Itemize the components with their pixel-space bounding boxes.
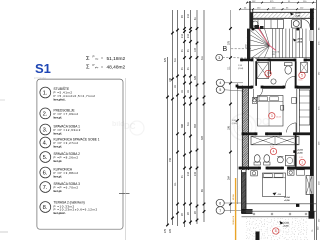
svg-text:ker.ploč.: ker.ploč.	[54, 97, 66, 101]
interior wall row2	[237, 86, 252, 89]
dimension ticks and labels	[183, 27, 186, 30]
legend item 5	[40, 152, 51, 163]
svg-text:+5,56: +5,56	[284, 200, 290, 202]
door arc bedroom1 entry	[253, 89, 262, 98]
legend item 4	[40, 137, 51, 148]
dimension line extended	[230, 10, 232, 213]
small column bottom	[256, 232, 260, 240]
nightstand bedroom3 left	[251, 171, 257, 176]
terrace corner wall horizontal	[242, 209, 253, 211]
svg-text:3: 3	[271, 114, 273, 118]
svg-text:+5,56: +5,56	[283, 225, 289, 227]
interior vertical wall bath2 right	[295, 135, 297, 166]
extension line bathroom1	[253, 61, 255, 86]
svg-text:6: 6	[267, 72, 269, 76]
window right bedroom3	[306, 176, 312, 195]
svg-text:212: 212	[181, 33, 184, 38]
legend item 2	[40, 108, 51, 119]
svg-text:375: 375	[228, 40, 231, 45]
svg-text:+5,56: +5,56	[295, 15, 301, 17]
svg-text:746: 746	[169, 157, 172, 162]
svg-text:4.: 4.	[43, 141, 48, 147]
door arc bathroom1	[286, 76, 296, 86]
svg-text:219: 219	[194, 171, 197, 176]
exterior top wall	[250, 11, 314, 13]
svg-text:ker.ploč.: ker.ploč.	[54, 211, 66, 215]
legend box	[37, 79, 123, 229]
faint vertical line right of legend	[125, 78, 127, 240]
top room fixture circle	[292, 20, 302, 29]
svg-text:7.: 7.	[43, 185, 48, 191]
svg-text:Σ: Σ	[86, 65, 90, 71]
svg-text:2.: 2.	[43, 112, 48, 118]
bed bedroom1	[258, 96, 284, 127]
grid bubble 5	[216, 86, 224, 93]
grid bubble 6	[216, 199, 224, 206]
svg-text:5: 5	[219, 88, 221, 92]
svg-text:ker.pl.: ker.pl.	[54, 144, 63, 148]
dimension chain vertical lines	[167, 57, 169, 225]
svg-text:1.: 1.	[43, 91, 48, 97]
legend item 6	[40, 167, 51, 178]
svg-text:212: 212	[187, 33, 190, 38]
interior wall row4	[240, 167, 260, 170]
orange boundary line	[235, 178, 237, 240]
svg-text:264: 264	[228, 175, 231, 180]
svg-text:368: 368	[181, 123, 184, 128]
washing machine bathroom2	[286, 155, 295, 166]
nightstand left	[252, 98, 256, 104]
svg-text:ker.pl.: ker.pl.	[54, 174, 63, 178]
svg-text:3.: 3.	[43, 128, 48, 134]
svg-text:+5,56: +5,56	[297, 152, 303, 154]
room label 5 (red)	[299, 72, 305, 78]
svg-text:+3,04: +3,04	[297, 38, 303, 41]
room label 3 (red)	[269, 113, 275, 119]
legend item 7	[40, 182, 51, 193]
top-right door arc	[301, 19, 303, 29]
svg-text:311: 311	[201, 56, 204, 60]
svg-text:7: 7	[219, 209, 221, 213]
interior vertical wall bedroom1 wardrobe	[296, 89, 298, 133]
svg-text:+5,04: +5,04	[283, 222, 289, 225]
svg-text:+5,04: +5,04	[297, 149, 303, 152]
svg-text:210: 210	[187, 171, 190, 176]
svg-text:+5,04: +5,04	[284, 196, 290, 199]
svg-text:51,18m2: 51,18m2	[107, 56, 126, 62]
svg-text:12,63: 12,63	[276, 116, 282, 118]
toilet bathroom1	[285, 63, 293, 66]
svg-text:4: 4	[219, 81, 221, 85]
grid bubble 4	[216, 79, 224, 86]
page fold dash	[119, 193, 130, 195]
terrace boundary lines	[246, 203, 316, 205]
svg-text:212: 212	[187, 13, 190, 18]
svg-text:5.: 5.	[43, 155, 48, 161]
svg-text:225: 225	[169, 228, 172, 233]
exterior left wall upper	[249, 1, 251, 29]
svg-text:(2,64): (2,64)	[232, 123, 238, 125]
svg-text:(2,64): (2,64)	[238, 68, 244, 70]
interior wall row3	[243, 132, 256, 135]
svg-text:bild: bild	[112, 121, 124, 128]
svg-text:=: =	[101, 65, 103, 69]
room label 6 (red)	[265, 70, 271, 76]
svg-text:C: C	[262, 117, 269, 128]
exterior left wall middle	[241, 86, 243, 171]
svg-text:B: B	[223, 46, 228, 53]
svg-text:311: 311	[174, 58, 177, 62]
svg-text:Σ: Σ	[86, 56, 90, 62]
svg-text:1,98: 1,98	[299, 157, 303, 159]
top dimension lines	[247, 2, 316, 4]
svg-text:196: 196	[228, 125, 231, 130]
dark fixtures left top	[255, 25, 260, 29]
nightstand right	[281, 106, 284, 111]
wardrobe small right of bed	[297, 170, 305, 175]
staircase straight run treads	[272, 29, 274, 58]
stair direction arrow (pink)	[258, 27, 270, 45]
legend item 1	[40, 87, 51, 98]
svg-text:S1: S1	[35, 61, 51, 76]
svg-text:=: =	[101, 57, 103, 61]
svg-text:8: 8	[275, 229, 277, 233]
wardrobe bedroom1	[299, 90, 310, 125]
svg-text:6.: 6.	[43, 171, 48, 177]
svg-text:357: 357	[194, 123, 197, 128]
grid bubble 3	[216, 54, 223, 60]
right border line	[316, 0, 318, 240]
nightstand bedroom3 right	[288, 170, 295, 175]
svg-text:307: 307	[201, 135, 204, 140]
staircase winder fan	[254, 29, 270, 46]
wall dim marks	[247, 36, 250, 39]
svg-text:GRANICA: GRANICA	[232, 215, 235, 225]
room label 8 (red) terrace	[273, 228, 279, 234]
terrace stipple	[246, 218, 308, 240]
svg-text:+3,56: +3,56	[297, 41, 303, 43]
legend item 3	[40, 124, 51, 135]
svg-text:ker.pl.: ker.pl.	[54, 131, 63, 135]
svg-text:MEĐA: MEĐA	[232, 194, 235, 200]
washbasin bathroom2	[277, 157, 283, 163]
grid bubble 7	[216, 207, 224, 214]
shower bathroom1	[257, 63, 269, 79]
bidet bathroom2	[264, 155, 270, 163]
svg-text:6: 6	[219, 202, 221, 206]
svg-text:5: 5	[301, 74, 303, 78]
edge artifact marks	[0, 231, 8, 233]
exterior right wall	[310, 9, 314, 31]
svg-text:ker.pl.: ker.pl.	[54, 115, 63, 119]
svg-text:378: 378	[194, 75, 197, 80]
watermark emblem	[130, 114, 269, 140]
svg-text:8.: 8.	[43, 205, 48, 211]
legend item 8	[40, 202, 51, 213]
door arc bedroom1	[287, 123, 297, 132]
wardrobe with X row3	[251, 136, 299, 145]
terrace right column	[309, 211, 315, 219]
washbasin bathroom1	[271, 79, 276, 84]
bed bedroom3	[263, 173, 286, 197]
svg-text:198: 198	[169, 77, 172, 82]
half wall bathroom1	[269, 61, 271, 74]
room label K (red) right	[299, 159, 305, 165]
exterior left wall lower / terrace corner	[241, 170, 243, 214]
junction marks	[252, 28, 255, 31]
wardrobe top room	[252, 20, 284, 29]
svg-text:275: 275	[164, 228, 167, 233]
svg-text:ker.pl.: ker.pl.	[54, 159, 63, 163]
svg-text:137: 137	[194, 47, 197, 52]
svg-text:3: 3	[218, 56, 220, 60]
interior wall row1 (below stairs)	[241, 59, 253, 62]
svg-text:+5,04: +5,04	[295, 12, 301, 15]
room label 4 (red)	[270, 148, 276, 154]
svg-text:4: 4	[273, 150, 275, 154]
svg-text:675: 675	[164, 57, 167, 62]
interior vertical wall bathroom1 right	[295, 61, 297, 86]
interior vertical wall bathroom1 left	[255, 61, 257, 86]
toilet bathroom2	[254, 162, 260, 165]
svg-text:311: 311	[187, 122, 190, 126]
svg-text:ker.pl.: ker.pl.	[54, 189, 63, 193]
svg-text:48,48m2: 48,48m2	[107, 65, 126, 71]
shaft right of bathroom1	[301, 63, 308, 73]
